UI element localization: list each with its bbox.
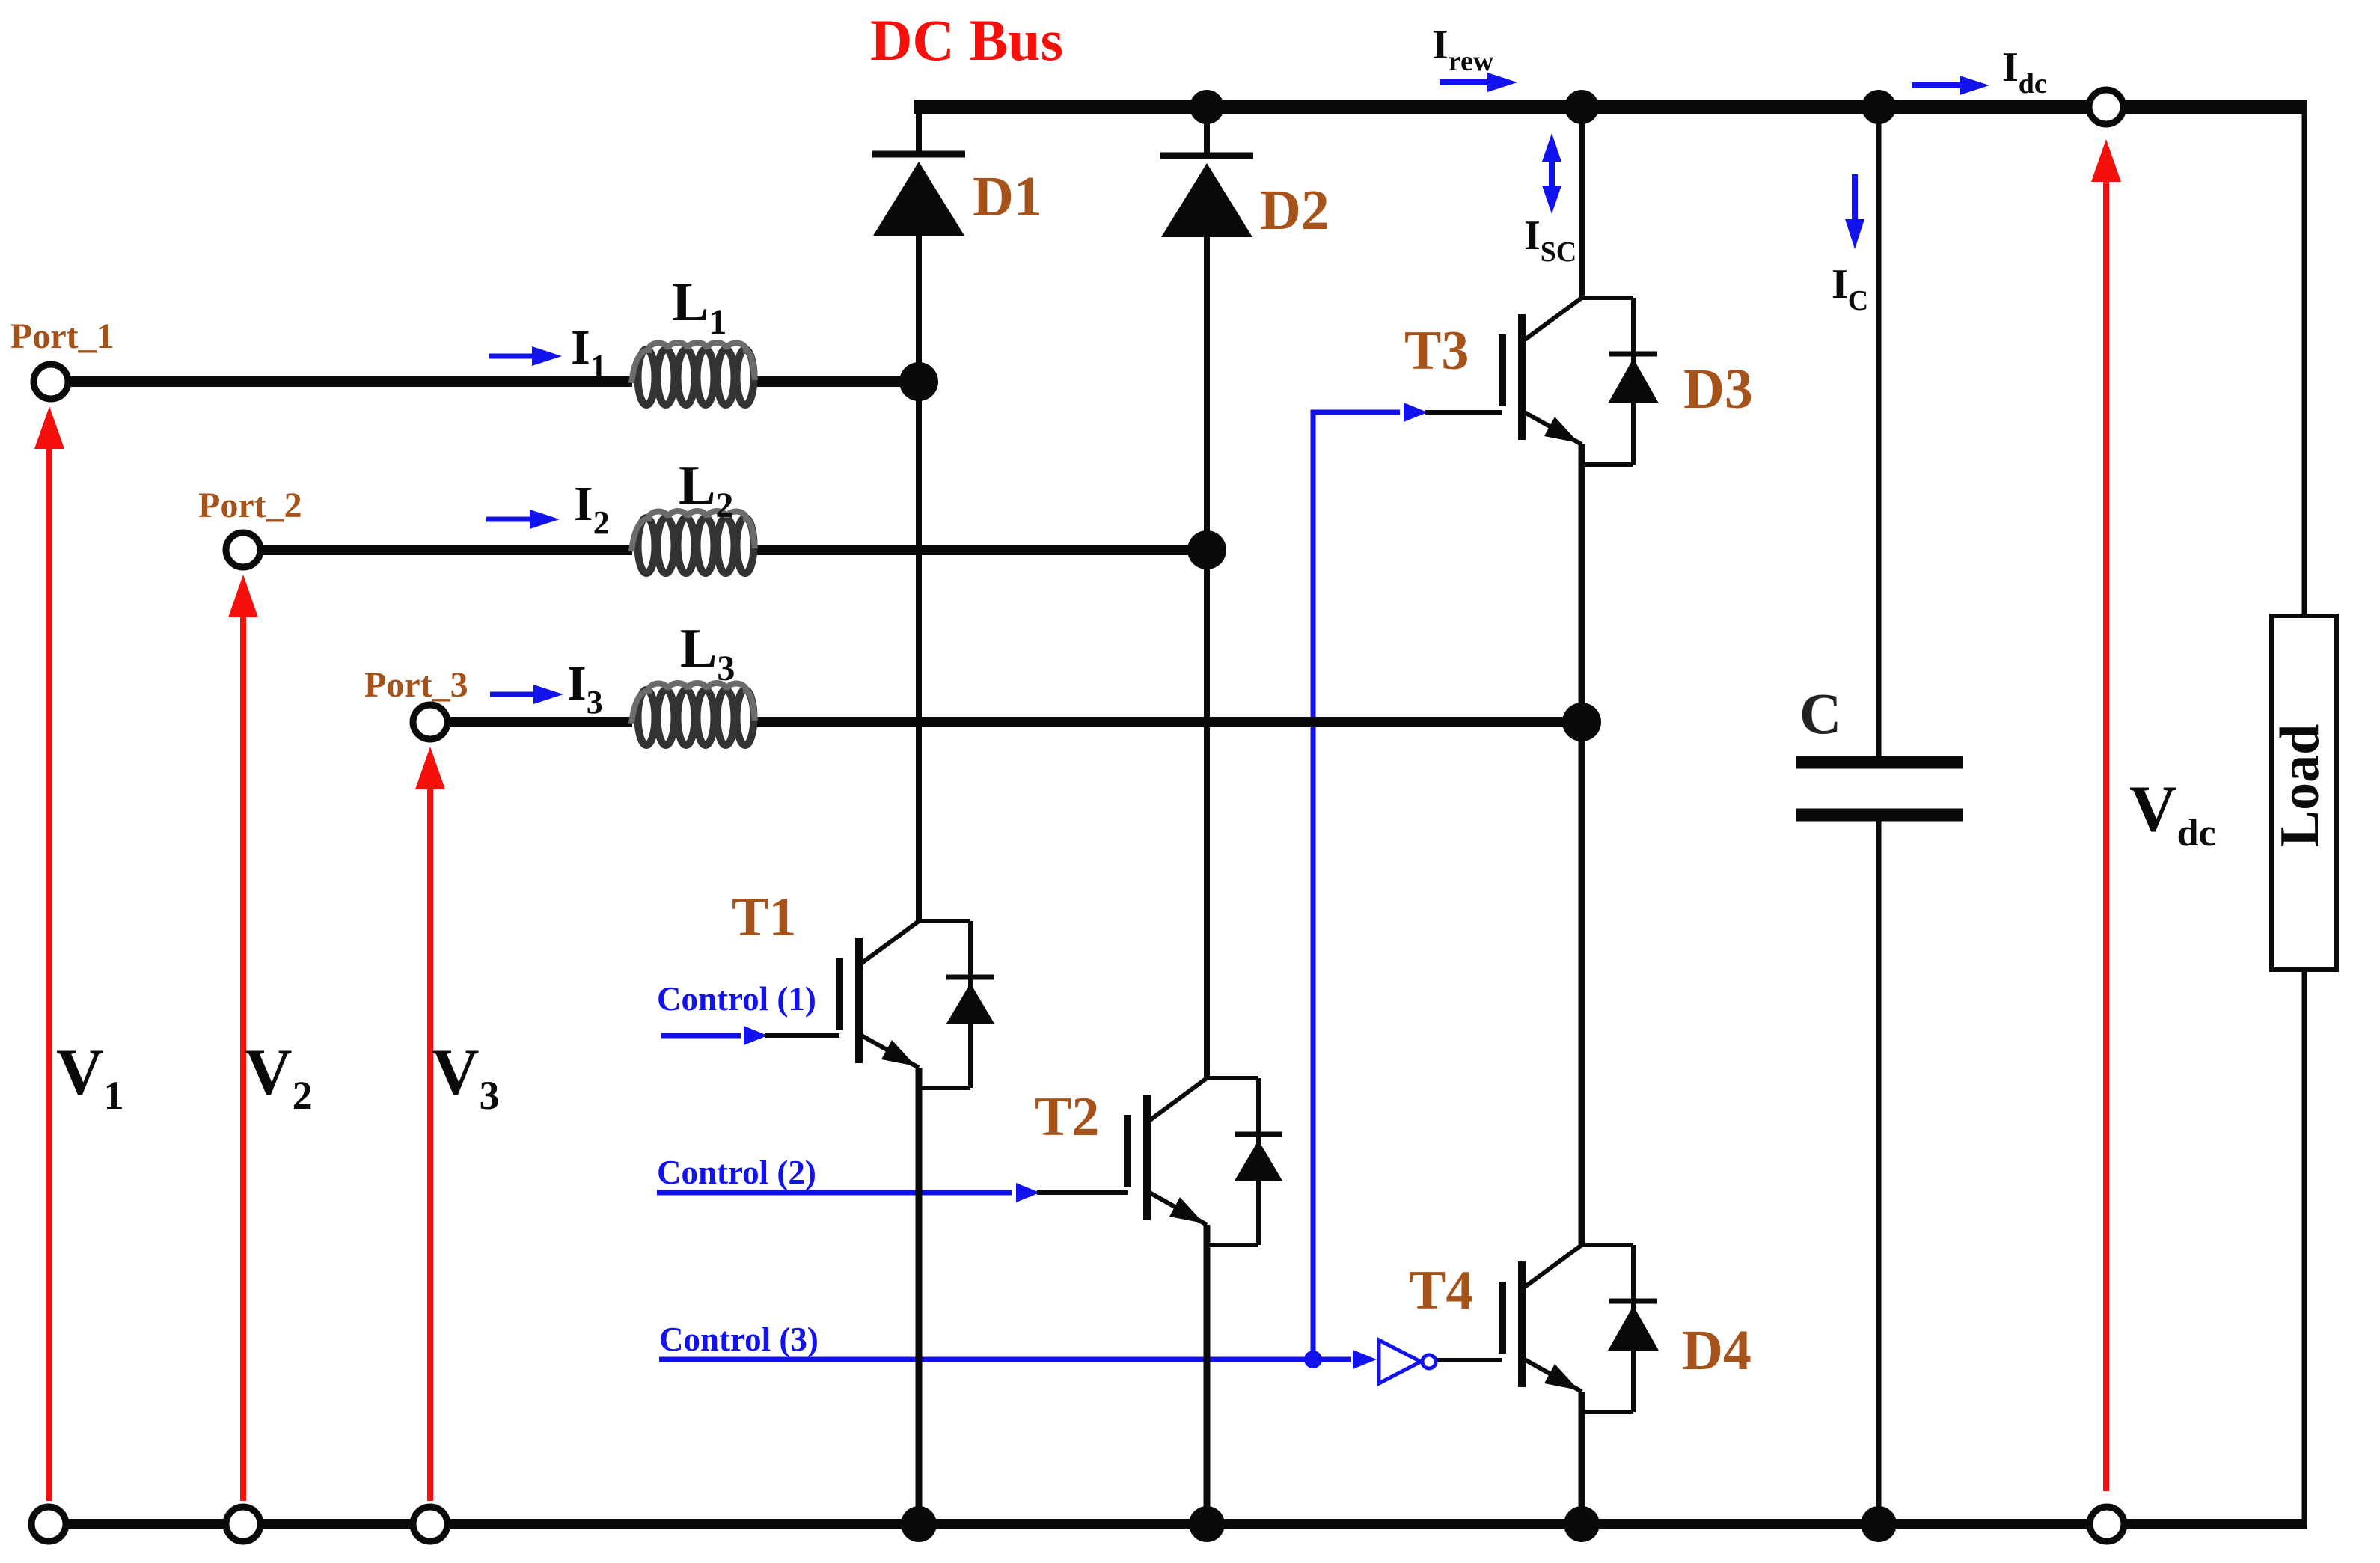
svg-text:Port_2: Port_2 [198,486,302,525]
wire: D2 branch vertical (bus to T2) [1204,107,1210,153]
wire: Control (3) blue line [659,1357,1351,1362]
node: rail x T2 [1189,1506,1225,1542]
arrow I2 blue [486,510,560,529]
svg-text:Load: Load [2269,724,2331,848]
wire: T1 emitter to rail [916,1068,923,1524]
wire: blue branch from Control (3) up to T3 gate [1313,412,1400,1359]
node: Port_2 terminal [226,533,260,567]
diode D1 [872,154,965,236]
wire: Port_1 horizontal [51,376,632,387]
svg-text:T3: T3 [1404,320,1469,382]
svg-text:Vdc: Vdc [2129,773,2216,854]
arrow V2 red [228,575,258,1501]
svg-text:Control (1): Control (1) [657,980,816,1018]
arrow V3 red [415,747,445,1501]
svg-text:Idc: Idc [2002,44,2047,100]
svg-text:V3: V3 [432,1036,500,1118]
arrow I3 blue [490,685,563,704]
node: bus x capacitor branch [1862,90,1896,124]
arrowhead: Control (2) [1016,1183,1040,1202]
wire: Port_3 horizontal [430,717,632,727]
node: Port_1 terminal [34,364,68,399]
wire: D1 branch vertical (bus to T1) [916,107,922,152]
inductor L3 [631,683,755,745]
svg-text:Control (3): Control (3) [659,1321,819,1358]
diode of T1 (body diode) [946,921,994,1088]
svg-text:I3: I3 [567,656,603,721]
node: rail x capacitor [1861,1506,1897,1542]
node: rail x T1 [901,1506,937,1542]
svg-text:Control (2): Control (2) [657,1154,816,1191]
svg-text:L2: L2 [679,455,733,525]
node: ground terminal 1 [31,1507,66,1541]
svg-text:D3: D3 [1683,358,1753,420]
wire: load bottom to rail [2302,970,2307,1524]
arrowhead: blue into T3 gate [1404,403,1428,422]
arrowhead: Control (3) into NOT gate [1353,1350,1377,1369]
wire: capacitor branch top [1876,107,1882,756]
node: bus x D2 [1190,90,1224,124]
node: Control (3) junction dot [1304,1351,1322,1368]
diode D4 (antiparallel of T4) [1608,1245,1659,1412]
inductor L2 [631,511,755,573]
wire: Port_2 horizontal [243,545,632,555]
svg-text:I2: I2 [574,477,610,541]
wire: top DC bus [914,100,2307,114]
svg-text:V1: V1 [56,1036,124,1118]
transistor T1 [765,921,970,1088]
wire: Control (2) blue line [657,1190,1012,1196]
transistor T4 [1436,1245,1633,1412]
arrow V1 red [34,406,64,1501]
wire: T2 emitter to rail [1204,1225,1211,1524]
inductor L1 [631,343,755,405]
node: bus x T3 branch [1564,90,1599,124]
svg-text:Port_1: Port_1 [10,316,114,356]
arrow ISC blue double [1542,133,1561,214]
wire: T3 emitter to Port_3 node and T4 collector [1579,444,1585,1245]
arrow Irew blue [1440,73,1517,92]
svg-text:T1: T1 [732,887,796,948]
svg-text:Port_3: Port_3 [364,665,468,705]
arrow I1 blue [489,346,562,366]
node: Port_2 line x D2 branch [1187,530,1226,569]
svg-text:T4: T4 [1409,1260,1473,1321]
wire: bottom rail [49,1519,2307,1529]
diode D3 (antiparallel of T3) [1608,298,1659,465]
node: Port_3 line x T3/T4 branch [1562,703,1601,741]
arrowhead: Control (1) [744,1026,768,1045]
node: rail x T4 [1564,1506,1600,1542]
transistor T2 [1037,1078,1258,1245]
svg-text:IC: IC [1832,261,1868,316]
node: Port_3 terminal [413,705,447,739]
wire: right vertical (bus end to load top) [2302,107,2307,615]
node: ground terminal 3 [413,1507,447,1541]
svg-text:DC Bus: DC Bus [870,7,1063,73]
svg-text:D1: D1 [973,165,1042,228]
svg-text:V2: V2 [245,1036,313,1118]
svg-text:I1: I1 [571,320,607,385]
svg-text:L3: L3 [680,618,735,688]
svg-text:T2: T2 [1035,1086,1099,1148]
node: ground terminal 2 [226,1507,260,1541]
svg-text:C: C [1799,681,1841,746]
wire: Control (1) blue line [661,1033,741,1039]
svg-text:D2: D2 [1260,179,1330,242]
arrow Vdc red [2091,139,2121,1491]
svg-text:Irew: Irew [1432,22,1494,77]
wire: T4 emitter to rail [1579,1392,1585,1524]
capacitor C [1796,762,1963,815]
node: output + terminal (top right) [2089,90,2123,124]
svg-text:L1: L1 [672,272,726,342]
arrow Idc blue [1912,76,1989,95]
node: Port_1 line x D1 branch [899,362,938,401]
resistor Load [2269,616,2337,970]
arrow IC blue (down) [1845,174,1864,249]
wire: bus to T3 collector [1579,107,1585,298]
svg-text:ISC: ISC [1524,212,1576,268]
diode of T2 (body diode) [1235,1078,1282,1245]
node: output - terminal (bottom right) [2090,1507,2124,1541]
diode D2 [1160,156,1253,237]
inverter (NOT gate) for T4 control [1379,1340,1436,1383]
wire: capacitor branch bottom [1876,819,1882,1524]
svg-text:D4: D4 [1682,1319,1752,1382]
transistor T3 [1425,298,1633,465]
